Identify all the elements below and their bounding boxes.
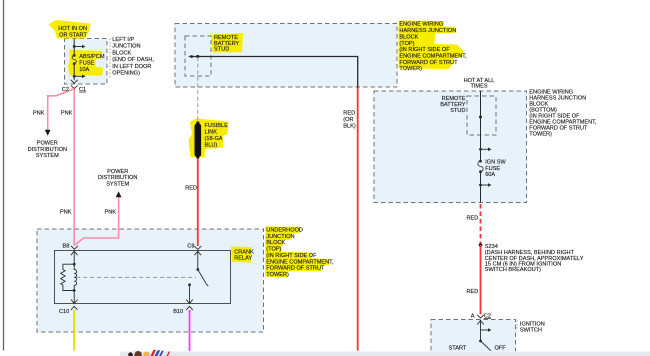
relay coil branch: B8 lead [73, 251, 75, 265]
connector C2 (ignition): terminal symbol [477, 315, 484, 318]
svg-text:HARNESS JUNCTION: HARNESS JUNCTION [399, 28, 456, 34]
svg-text:OPENING): OPENING) [112, 71, 140, 77]
svg-text:PNK: PNK [33, 111, 45, 117]
svg-text:C1: C1 [79, 87, 86, 93]
engine wiring harness junction block (top) box [175, 24, 397, 88]
svg-text:STUD: STUD [450, 108, 465, 114]
svg-text:BLOCK: BLOCK [112, 50, 131, 56]
magenta wire from B10 [189, 310, 191, 351]
svg-text:(TOP): (TOP) [266, 247, 281, 253]
ignition switch contact [479, 340, 482, 343]
svg-text:ENGINE COMPARTMENT,: ENGINE COMPARTMENT, [399, 54, 467, 60]
svg-text:C2: C2 [484, 313, 491, 319]
svg-text:C10: C10 [59, 309, 69, 315]
svg-text:UNDERHOOD: UNDERHOOD [266, 228, 303, 234]
bottom status bar [120, 351, 650, 356]
svg-text:RED: RED [185, 186, 197, 192]
left I/P junction block box [65, 39, 108, 85]
highlight: engine wiring top label [399, 21, 464, 70]
svg-text:(IN RIGHT SIDE OF: (IN RIGHT SIDE OF [266, 253, 317, 259]
ignition switch blade [481, 341, 492, 351]
svg-text:ENGINE COMPARTMENT,: ENGINE COMPARTMENT, [266, 259, 334, 265]
relay coil (inductor) [74, 264, 76, 290]
svg-text:SYSTEM: SYSTEM [106, 181, 129, 187]
ignition switch internal lead [480, 320, 482, 341]
svg-text:(END OF DASH,: (END OF DASH, [112, 57, 154, 63]
connector C10: terminal symbol [71, 306, 78, 310]
leader: left I/P junction block label [109, 39, 111, 79]
svg-text:PNK: PNK [61, 111, 73, 117]
svg-text:TOWER): TOWER) [529, 131, 552, 137]
fuse F: IGN SW fuse element [479, 160, 482, 163]
highlight: remote battery stud (top) [212, 33, 244, 53]
fusible link: body [195, 124, 202, 157]
svg-text:HOT IN ON: HOT IN ON [58, 26, 87, 32]
svg-text:A: A [471, 313, 475, 319]
fusible link: terminals [196, 121, 199, 124]
yellow wire from C10 [73, 310, 75, 351]
off-page arrow: power distribution (left) [45, 130, 51, 136]
svg-text:BLK): BLK) [343, 123, 356, 129]
svg-text:IGN SW: IGN SW [485, 160, 506, 166]
logo fragment at bottom [128, 352, 133, 356]
connector C8: terminal symbol [194, 246, 201, 249]
svg-text:FUSE: FUSE [485, 166, 500, 172]
svg-text:BLOCK: BLOCK [399, 34, 418, 40]
relay linkage (dashed) [76, 276, 196, 278]
svg-text:SWITCH: SWITCH [520, 327, 542, 333]
svg-text:IN LEFT DOOR: IN LEFT DOOR [112, 64, 151, 70]
node: stud junction (bottom) [479, 116, 482, 119]
svg-text:BLOCK: BLOCK [266, 240, 285, 246]
svg-text:FORWARD OF STRUT: FORWARD OF STRUT [399, 60, 458, 66]
node: fuse bottom junction with right arrow [73, 75, 76, 78]
ignition feed arrow right [481, 329, 489, 331]
svg-text:TOWER): TOWER) [399, 66, 422, 72]
svg-text:TIMES: TIMES [470, 84, 487, 90]
remote battery stud box (top) [185, 36, 211, 76]
svg-text:JUNCTION: JUNCTION [112, 44, 140, 50]
window frame left edge [3, 0, 5, 351]
svg-text:RELAY: RELAY [234, 255, 252, 261]
black wire: remote battery stud feed [191, 57, 358, 89]
svg-text:POWER: POWER [37, 141, 58, 147]
pink wire: C1 down to crank relay B8 [73, 89, 75, 246]
svg-text:60A: 60A [485, 172, 495, 178]
svg-text:POWER: POWER [107, 169, 128, 175]
svg-text:(TOP): (TOP) [399, 41, 414, 47]
red wire: fusible link to crank relay C8 [197, 158, 199, 246]
red wire (RED OR BLK) long vertical [357, 88, 359, 351]
crank relay box [55, 251, 231, 304]
svg-text:RED: RED [343, 111, 355, 117]
svg-text:(18-GA: (18-GA [205, 136, 223, 142]
connector B8: terminal symbol [71, 246, 78, 249]
node: stud junction (top) [196, 55, 199, 58]
svg-text:B10: B10 [173, 309, 183, 315]
svg-text:TOWER): TOWER) [266, 272, 289, 278]
highlight: underhood junction block label [265, 226, 330, 277]
remote battery stud box (bottom) [467, 96, 496, 135]
svg-text:B8: B8 [63, 243, 70, 249]
ignition switch box [431, 320, 516, 356]
arrow: stud wire left end [188, 55, 192, 59]
highlight: crank relay label [231, 247, 252, 263]
relay switch blade [198, 270, 209, 286]
svg-text:RED: RED [466, 216, 478, 222]
svg-text:ABS/PCM: ABS/PCM [79, 54, 105, 60]
svg-text:SWITCH BREAKOUT): SWITCH BREAKOUT) [485, 267, 541, 273]
svg-text:DISTRIBUTION: DISTRIBUTION [98, 175, 137, 181]
svg-text:LEFT I/P: LEFT I/P [112, 37, 134, 43]
pink wire: B8 branch to power distribution (right) [75, 197, 119, 246]
underhood junction block box [37, 229, 264, 332]
svg-text:LINK: LINK [205, 130, 218, 136]
highlight: abs/pcm fuse 10a [68, 50, 103, 76]
relay switch: C8 lead [197, 251, 199, 270]
svg-text:FUSIBLE: FUSIBLE [205, 123, 229, 129]
svg-text:OR START: OR START [59, 33, 87, 39]
highlight: hot in on or start [49, 20, 91, 39]
svg-text:STUD: STUD [214, 47, 229, 53]
svg-text:PNK: PNK [105, 210, 117, 216]
leader: ignition switch label [516, 321, 518, 332]
svg-text:FORWARD OF STRUT: FORWARD OF STRUT [266, 266, 325, 272]
svg-text:START: START [449, 346, 467, 352]
svg-text:FUSE: FUSE [79, 61, 94, 67]
svg-text:PNK: PNK [60, 210, 72, 216]
connector B10: terminal symbol [186, 306, 193, 310]
relay coil to C10 lead with arrow [73, 291, 75, 304]
relay switch contact to B10 [188, 283, 191, 286]
red dashed wire: to S234 [480, 204, 482, 244]
node: junction with right arrow below fuse [479, 184, 482, 187]
svg-text:C8: C8 [187, 243, 194, 249]
svg-text:RED: RED [466, 289, 478, 295]
dashed lead: stud to fusible link [197, 57, 199, 122]
svg-text:SYSTEM: SYSTEM [36, 153, 59, 159]
svg-text:C2: C2 [62, 87, 69, 93]
node: fuse top junction with right arrow [73, 45, 76, 48]
wire: ABS/PCM fuse feed line [73, 39, 75, 81]
svg-text:OFF: OFF [495, 346, 507, 352]
pink wire: C2 to power distribution [48, 89, 74, 130]
svg-text:10A: 10A [79, 67, 89, 73]
svg-text:(OR: (OR [343, 117, 353, 123]
highlight: fusible link [189, 119, 229, 158]
ign sw feed line (bottom engine box) [480, 91, 482, 202]
svg-text:ENGINE WIRING: ENGINE WIRING [399, 22, 443, 28]
off-page arrow: power distribution (right) [116, 191, 122, 197]
fuse F: ABS/PCM fuse element [73, 54, 76, 57]
connector C1/C2: terminal symbol [71, 80, 78, 84]
svg-text:DISTRIBUTION: DISTRIBUTION [28, 147, 67, 153]
svg-text:(IN RIGHT SIDE OF: (IN RIGHT SIDE OF [399, 47, 450, 53]
svg-text:JUNCTION: JUNCTION [266, 234, 294, 240]
engine wiring harness junction block (bottom) box [374, 91, 527, 203]
splice S234 [479, 243, 483, 247]
relay suppression resistor [61, 264, 74, 290]
red wire: S234 to ignition switch [480, 245, 482, 314]
node: junction with right arrow above fuse [479, 148, 482, 151]
svg-text:BLU): BLU) [205, 142, 218, 148]
